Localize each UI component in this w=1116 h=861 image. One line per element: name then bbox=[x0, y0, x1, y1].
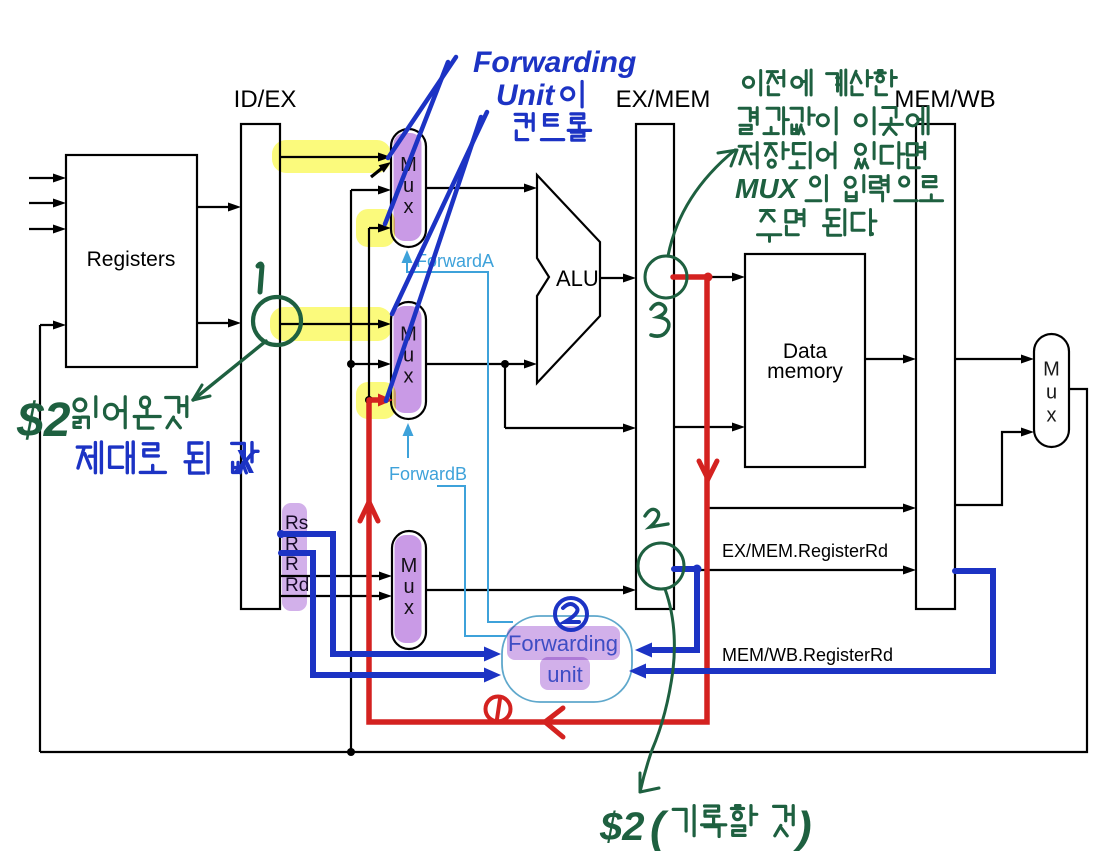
svg-text:MUX: MUX bbox=[735, 173, 800, 204]
svg-text:$2: $2 bbox=[16, 394, 71, 447]
svg-text:ForwardB: ForwardB bbox=[389, 464, 467, 484]
svg-text:M: M bbox=[1043, 359, 1060, 381]
svg-text:x: x bbox=[1047, 405, 1057, 427]
svg-text:Unit: Unit bbox=[496, 79, 556, 112]
svg-text:EX/MEM: EX/MEM bbox=[616, 86, 711, 113]
svg-text:EX/MEM.RegisterRd: EX/MEM.RegisterRd bbox=[722, 541, 888, 561]
svg-text:$2: $2 bbox=[599, 805, 645, 849]
svg-text:ForwardA: ForwardA bbox=[416, 251, 494, 271]
svg-text:ALU: ALU bbox=[556, 266, 599, 291]
svg-text:Forwarding: Forwarding bbox=[473, 46, 636, 79]
svg-text:Registers: Registers bbox=[87, 248, 176, 271]
svg-text:u: u bbox=[1046, 382, 1057, 404]
svg-text:X: X bbox=[232, 443, 258, 480]
svg-text:MEM/WB.RegisterRd: MEM/WB.RegisterRd bbox=[722, 645, 893, 665]
svg-text:ID/EX: ID/EX bbox=[234, 86, 297, 113]
svg-text:MEM/WB: MEM/WB bbox=[894, 86, 995, 113]
svg-text:memory: memory bbox=[767, 360, 843, 383]
